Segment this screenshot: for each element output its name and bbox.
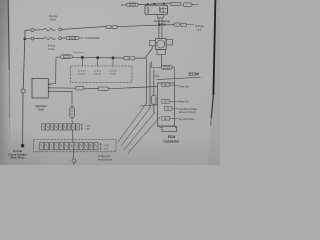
wire: pump to bus diagonal: [145, 46, 152, 58]
dashed lead: [80, 37, 85, 39]
wire: pump down to fuse F6: [161, 55, 163, 66]
tube component right: [152, 95, 156, 105]
dashed box injector loads: [71, 66, 133, 83]
connector pair J3: [171, 2, 182, 5]
pin cell Fuel Pump Relay: [164, 107, 172, 111]
wire: fuse row 2 horizontal: [25, 38, 31, 40]
connector pair J6: [98, 87, 109, 90]
ECM title line: [157, 77, 201, 79]
wire: coil lead c down: [48, 91, 72, 107]
connector circle row2 right: [59, 37, 62, 40]
junction dot relay feed: [158, 24, 160, 26]
row 2 inner marks: [41, 144, 97, 147]
wire: row2 down to bottom connector: [72, 150, 75, 165]
horizontal joiner: [140, 105, 158, 106]
dashed box lower connector: [34, 140, 117, 152]
connector circle row1 left: [31, 29, 34, 32]
pin cell Key ON Power: [162, 116, 170, 120]
relay feed wire top: [121, 4, 127, 6]
wire: tube to connector row: [71, 118, 73, 125]
ignition coil box: [32, 79, 48, 99]
fuse F3 cartridge: [66, 36, 79, 39]
wire: [138, 3, 170, 4]
relay contact: [160, 7, 164, 13]
relay coil: [148, 7, 149, 13]
connector pair J5: [76, 87, 85, 90]
plug resistor tube: [70, 107, 75, 118]
wire below tube: [153, 105, 155, 113]
wire: long run to connector: [62, 27, 106, 30]
wire: [34, 37, 44, 39]
wire: coil lead b long: [48, 87, 157, 89]
bus continues to ECM: [135, 57, 145, 59]
coil pin marks: [48, 84, 50, 93]
wire v2: [149, 63, 151, 108]
fuel pump M1 body: [155, 39, 166, 50]
wire: row1 to row2: [72, 130, 75, 143]
dashed lead: [188, 23, 194, 25]
wire: [34, 29, 44, 31]
fuse F4 cartridge: [127, 3, 139, 6]
main bus wire: [56, 56, 60, 58]
connector pair J4 on bus: [124, 56, 130, 59]
wire to data link row: [117, 25, 174, 27]
connector pair J1: [106, 26, 111, 29]
right page edge line: [213, 0, 215, 95]
pin cell Front Coil: [162, 83, 170, 87]
fuse F6 cartridge: [161, 66, 172, 70]
node tap 3: [112, 56, 115, 59]
wire: fuse row 1 horizontal: [25, 29, 30, 31]
relay K1 box: [145, 5, 168, 14]
connector circle row1 right: [59, 28, 62, 31]
relay pin stubs: [148, 4, 165, 6]
wire: [62, 37, 66, 39]
node tap 2: [96, 56, 99, 59]
wire v3 with tube: [153, 70, 155, 95]
fuse F5 cartridge on bus: [60, 55, 72, 59]
wire stub: [192, 4, 199, 6]
fuse F2 squiggle: [44, 37, 55, 40]
wire: left vertical feed V1: [23, 30, 25, 145]
fuse F1 squiggle: [44, 28, 55, 31]
connector circle bottom: [72, 159, 76, 163]
node tap 1: [81, 56, 84, 59]
relay lower terminal box: [157, 15, 163, 18]
row 1 arrow: [81, 124, 83, 130]
wire: relay to pump twin leads: [159, 18, 162, 39]
left page shadow: [0, 0, 11, 165]
pin cell Rear Coil: [162, 99, 170, 103]
wire F6 to ECM box: [172, 68, 174, 84]
fuel pump right terminal: [166, 40, 172, 46]
connector pair J2: [174, 23, 180, 26]
connector circle row2 left: [31, 37, 34, 40]
wire: bus down right cluster v1: [146, 58, 148, 103]
fuel pump motor circle: [157, 40, 165, 48]
row 2 arrow: [100, 143, 102, 149]
paper background: [0, 0, 220, 165]
wire: bus corner down to coil: [48, 57, 56, 84]
connector row 1: [42, 124, 80, 130]
fuel pump lower box: [157, 50, 166, 55]
fuel pump left terminal: [149, 41, 155, 46]
fuse F6 feed: [152, 62, 162, 68]
left page edge line: [8, 0, 9, 70]
row 1 inner marks: [43, 126, 79, 129]
connector circle V1: [21, 89, 25, 93]
connector row 2: [40, 143, 98, 150]
right page area beyond edge: [208, 0, 220, 165]
junction dots relay top: [147, 3, 149, 5]
ECM connector end box: [158, 126, 177, 128]
bus run with taps: [72, 56, 123, 59]
node 30 Amp breaker: [21, 144, 24, 147]
wires: harness diagonals to ECM connector: [118, 103, 160, 153]
ECM connector box: [158, 83, 175, 126]
tap stubs into dashed box: [82, 58, 113, 67]
junction dot row2: [24, 38, 27, 41]
